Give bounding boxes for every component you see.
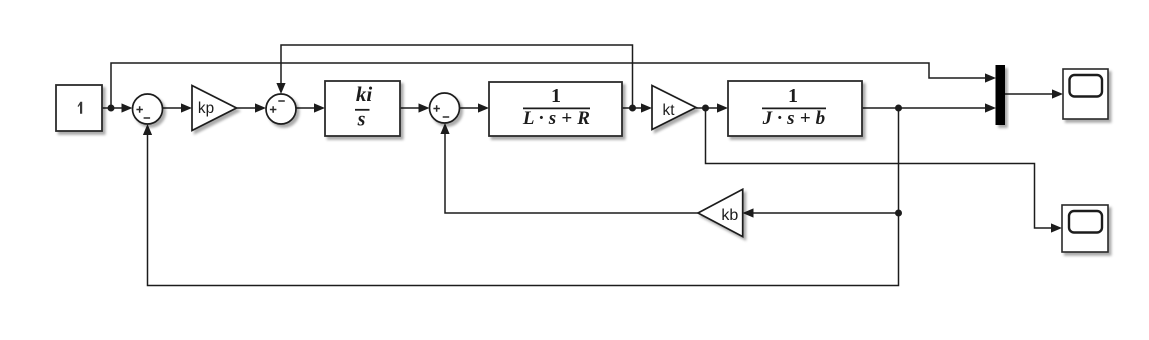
wire kp to sum2 xyxy=(237,107,258,109)
wire kt to block 1/(J·s+b) xyxy=(696,107,719,109)
constant block value 1 xyxy=(56,85,102,131)
wire mux output to scope1 xyxy=(1005,93,1053,95)
wire speed branch into gain kb xyxy=(752,212,899,214)
gain kb (pointing left) xyxy=(698,189,743,236)
wire ki/s to sum3 xyxy=(400,107,420,109)
junction node at 1/(L·s+R) output xyxy=(629,105,636,112)
arrowhead into block 1/(J·s+b) xyxy=(717,103,728,112)
wire reference branch to mux top input xyxy=(111,63,986,108)
svg-text:J · s + b: J · s + b xyxy=(762,108,826,129)
arrowhead into gain kb (pointing left) xyxy=(743,208,754,217)
arrowhead into sum1 bottom xyxy=(143,124,152,135)
gain kt xyxy=(652,86,696,130)
arrowhead into gain kp xyxy=(181,103,192,112)
arrowhead into mux top input xyxy=(985,73,996,82)
arrowhead into sum3 left xyxy=(419,103,430,112)
gain kp xyxy=(192,86,237,131)
arrowhead into sum2 left xyxy=(255,103,266,112)
wire block 1/(L·s+R) output to kt xyxy=(622,107,643,109)
transfer function block 1/(J·s+b) xyxy=(728,81,862,136)
arrowhead into sum3 bottom xyxy=(440,123,449,134)
scope1 block xyxy=(1063,69,1108,119)
wire kb output to sum3 bottom xyxy=(445,133,698,213)
arrowhead into sum1 left xyxy=(122,103,133,112)
wire kt output branch to scope2 xyxy=(706,108,1053,228)
sum block S2 xyxy=(266,94,296,124)
wire outer speed feedback to sum1 bottom xyxy=(148,108,899,286)
svg-text:ki: ki xyxy=(356,82,373,106)
junction node on feedback line at kb branch xyxy=(895,210,902,217)
transfer function block 1/(L·s+R) xyxy=(489,82,622,136)
svg-text:kb: kb xyxy=(721,207,738,224)
wire sum2 to integrator ki/s xyxy=(296,107,316,109)
svg-text:1: 1 xyxy=(551,85,561,107)
wire inner current feedback loop to sum2 top xyxy=(281,45,633,108)
wire sum1 to kp xyxy=(163,107,184,109)
sum block S1 xyxy=(133,94,163,124)
arrowhead into mux bottom input xyxy=(985,103,996,112)
svg-text:L · s + R: L · s + R xyxy=(522,108,590,129)
wire sum3 to block 1/(L·s+R) xyxy=(460,107,481,109)
scope2 block xyxy=(1062,205,1108,252)
svg-text:kt: kt xyxy=(663,102,676,119)
arrowhead into block 1/(L·s+R) xyxy=(478,103,489,112)
arrowhead into gain kt xyxy=(641,103,652,112)
svg-text:s: s xyxy=(357,109,366,131)
junction node at constant output xyxy=(108,105,115,112)
mux block xyxy=(996,65,1006,125)
arrowhead into sum2 top xyxy=(276,83,285,94)
svg-text:kp: kp xyxy=(198,100,214,117)
arrowhead into scope1 xyxy=(1052,89,1063,98)
junction node at speed output xyxy=(895,105,902,112)
arrowhead into scope2 xyxy=(1051,223,1062,232)
junction node at kt output xyxy=(702,105,709,112)
wire constant output to sum1 xyxy=(102,107,123,109)
integrator block ki/s xyxy=(325,81,400,136)
svg-text:1: 1 xyxy=(788,85,798,107)
arrowhead into block ki/s xyxy=(314,103,325,112)
sum block S3 xyxy=(430,93,460,123)
wire 1/(J·s+b) output to mux bottom input xyxy=(862,107,986,109)
